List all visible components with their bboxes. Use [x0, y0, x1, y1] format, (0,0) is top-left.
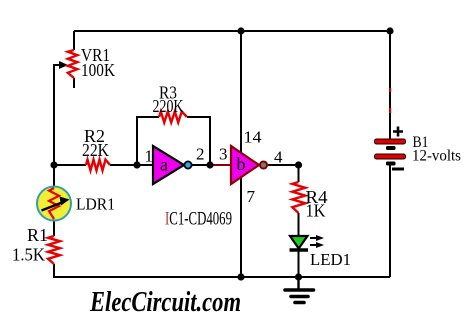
svg-text:2: 2: [196, 145, 205, 164]
wire battery top lead: [389, 31, 391, 139]
svg-text:7: 7: [247, 187, 256, 206]
wire left vertical: [53, 64, 55, 278]
node R3 left junction: [133, 161, 140, 168]
node R3 right junction: [206, 161, 213, 168]
svg-text:220K: 220K: [153, 96, 184, 116]
svg-text:IC1-CD4069: IC1-CD4069: [165, 209, 232, 230]
LED LED1: [290, 236, 308, 249]
LED1 arrow 1: [310, 237, 317, 239]
wire junction to inverter b (dark red): [211, 164, 232, 166]
node top rail pin14 junction: [237, 27, 244, 34]
wire bottom rail: [54, 276, 390, 278]
wire signal input: [54, 164, 154, 166]
node R4 top junction: [295, 161, 302, 168]
wire inverter a output to junction: [192, 164, 213, 166]
svg-text:LED1: LED1: [310, 250, 351, 269]
ground: [297, 277, 299, 289]
wire VR1 wiper arrow: [54, 64, 60, 66]
node left junction: [50, 161, 57, 168]
svg-text:a: a: [160, 155, 168, 175]
svg-text:14: 14: [244, 128, 263, 147]
battery minus sign: [392, 168, 404, 171]
wire pin 7: [240, 176, 242, 277]
wire top rail: [74, 30, 390, 32]
LDR LDR1: [37, 187, 71, 221]
battery long plate 2: [375, 154, 406, 159]
LED1 arrow 2: [310, 244, 317, 246]
wire pin 14: [240, 31, 242, 154]
svg-text:R1: R1: [27, 225, 48, 245]
wire VR1 top lead: [73, 31, 75, 50]
svg-text:b: b: [237, 154, 246, 174]
svg-text:12-volts: 12-volts: [412, 148, 461, 165]
svg-text:3: 3: [219, 145, 228, 164]
svg-text:LDR1: LDR1: [76, 195, 115, 214]
resistor VR1: [68, 50, 78, 78]
wire VR1 bottom stub: [73, 78, 75, 88]
battery short plate 2: [386, 162, 396, 166]
node inverter a output bubble: [184, 161, 191, 168]
battery long plate 1: [375, 139, 406, 144]
node ground junction: [295, 273, 302, 280]
battery plus sign: [393, 127, 403, 137]
resistor R1: [48, 236, 60, 264]
node top rail battery corner: [386, 27, 393, 34]
wire R4 column: [298, 165, 300, 278]
svg-text:1: 1: [145, 147, 154, 166]
svg-text:1K: 1K: [306, 201, 326, 221]
wire battery bottom lead: [389, 164, 391, 277]
svg-text:100K: 100K: [81, 60, 115, 80]
resistor R3: [159, 112, 187, 123]
svg-text:22K: 22K: [82, 140, 109, 160]
wire R3 feedback loop: [137, 117, 210, 165]
node inverter b output bubble: [260, 161, 267, 168]
node pin7 bottom junction: [237, 273, 244, 280]
svg-text:4: 4: [274, 148, 283, 167]
wire inverter b output: [268, 164, 298, 166]
battery short plate 1: [386, 146, 396, 150]
svg-text:1.5K: 1.5K: [12, 245, 45, 265]
svg-text:ElecCircuit.com: ElecCircuit.com: [89, 286, 241, 318]
wire red nicks on battery lead: [389, 88, 391, 92]
resistor R2: [86, 160, 110, 171]
op-amp U1b inverter b: [231, 146, 259, 184]
resistor R4: [292, 182, 305, 213]
op-amp U1a inverter a: [153, 146, 184, 184]
